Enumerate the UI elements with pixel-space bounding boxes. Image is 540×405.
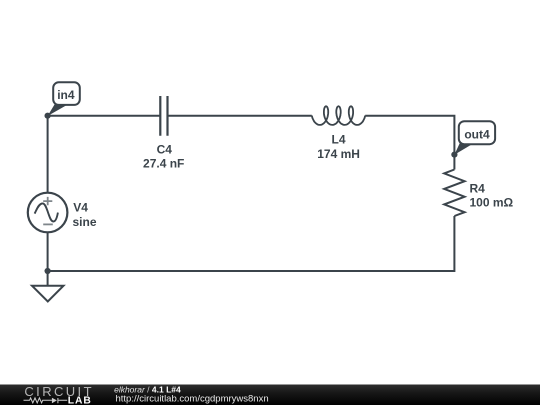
svg-text:out4: out4 bbox=[464, 127, 490, 141]
svg-text:http://circuitlab.com/cgdpmryw: http://circuitlab.com/cgdpmryws8nxn bbox=[116, 394, 269, 405]
V4 minus sign bbox=[43, 223, 53, 225]
wire R4 bottom to bottom-right corner to bottom node bbox=[48, 216, 455, 271]
wire C4 right plate to L4 bbox=[168, 115, 312, 117]
svg-text:LAB: LAB bbox=[68, 395, 92, 405]
svg-text:in4: in4 bbox=[57, 88, 75, 102]
node dot in4 bbox=[45, 113, 51, 119]
svg-text:R4: R4 bbox=[470, 182, 486, 196]
out4 flag pointer bbox=[454, 142, 472, 155]
wire V4 bottom to bottom node bbox=[47, 232, 49, 271]
svg-text:L4: L4 bbox=[331, 132, 345, 146]
svg-text:V4: V4 bbox=[73, 201, 88, 215]
wire top-left node to C4 left plate bbox=[48, 115, 161, 117]
ground symbol bbox=[32, 286, 64, 302]
wire out4 node to R4 top bbox=[453, 155, 455, 170]
node dot bottom bbox=[45, 268, 51, 274]
in4 flag pointer bbox=[48, 102, 66, 116]
V4 sine wave bbox=[35, 203, 58, 221]
svg-text:27.4 nF: 27.4 nF bbox=[143, 156, 184, 170]
svg-text:100 mΩ: 100 mΩ bbox=[470, 196, 514, 210]
wire bottom node to ground bbox=[47, 271, 49, 286]
capacitor C4 plates bbox=[160, 96, 167, 136]
svg-text:sine: sine bbox=[73, 215, 97, 229]
inductor L4 coil bbox=[312, 106, 365, 125]
wire top-left node to V4 top bbox=[47, 116, 49, 193]
resistor R4 zigzag bbox=[444, 170, 464, 217]
footer bar bbox=[0, 385, 540, 405]
svg-text:174 mH: 174 mH bbox=[317, 147, 360, 161]
wire L4 to top-right corner down to out4 node bbox=[365, 116, 454, 155]
V4 plus sign bbox=[43, 197, 52, 205]
svg-text:C4: C4 bbox=[157, 142, 173, 156]
voltage source V4 circle bbox=[28, 193, 68, 233]
logo resistor-diode line bbox=[24, 398, 68, 403]
node dot out4 bbox=[451, 152, 457, 158]
logo diode triangle bbox=[52, 398, 57, 403]
out4 flag box bbox=[459, 121, 495, 144]
in4 flag box bbox=[53, 82, 80, 105]
